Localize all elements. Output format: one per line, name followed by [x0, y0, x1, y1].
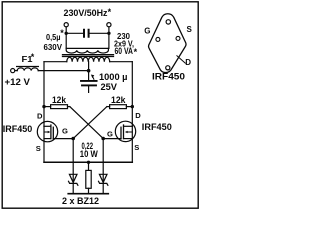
- svg-text:*: *: [60, 28, 64, 38]
- wire gate Q1 down to zener: [72, 139, 74, 184]
- wire cross coupling R2 to gate Q1: [73, 107, 107, 139]
- svg-text:*: *: [108, 7, 112, 17]
- label 230 2x9V 60VA: [114, 31, 138, 57]
- svg-text:+12 V: +12 V: [5, 77, 31, 88]
- transformer T1 secondary scallops: [66, 48, 108, 53]
- label F1: [22, 52, 35, 64]
- svg-text:*: *: [134, 47, 138, 57]
- IC package TO-3 outline: [149, 14, 186, 73]
- label 12k R1: [52, 95, 66, 105]
- label G Q1: [62, 127, 68, 136]
- svg-text:D: D: [37, 111, 43, 120]
- wire source Q2 down to rail: [131, 126, 133, 162]
- terminal +12V: [11, 69, 15, 73]
- svg-text:IRF450: IRF450: [3, 124, 33, 134]
- wire D1 cathode to bottom rail: [72, 183, 74, 193]
- svg-text:IRF450: IRF450: [152, 71, 185, 81]
- resistor R1 12k left: [51, 105, 68, 109]
- wire primary left end to drain Q1: [44, 61, 67, 63]
- wire center tap down: [88, 62, 90, 71]
- node dot center tap junction: [87, 69, 91, 73]
- label D TO-3: [185, 58, 191, 67]
- terminal left 230V: [64, 23, 68, 27]
- wire D2 cathode to bottom rail: [102, 183, 104, 193]
- label 0,22 10W: [80, 141, 98, 159]
- transformer T1 secondary line: [66, 47, 108, 49]
- transformer core lines: [63, 55, 114, 57]
- capacitor C1 0.5u 630V leads: [66, 32, 109, 34]
- wire gate Q1 lead: [53, 138, 73, 140]
- svg-text:*: *: [31, 52, 35, 62]
- node dot gate Q1: [71, 137, 75, 141]
- node dot gate Q2: [101, 137, 105, 141]
- transistor Q1 IRF450 left: [37, 121, 57, 141]
- svg-text:G: G: [62, 127, 68, 136]
- svg-text:S: S: [134, 143, 139, 152]
- label S TO-3: [187, 25, 193, 34]
- svg-text:10 W: 10 W: [80, 148, 98, 159]
- svg-text:S: S: [36, 144, 41, 153]
- svg-text:60 VA: 60 VA: [115, 46, 134, 56]
- node dot source rail center: [87, 161, 90, 164]
- svg-text:0,5µ: 0,5µ: [46, 33, 61, 42]
- transistor Q2 IRF450 right: [115, 121, 135, 141]
- node dot right cap junction: [107, 32, 110, 35]
- polarity arrow C2: [93, 77, 94, 79]
- wire source Q1 down to rail: [43, 126, 45, 162]
- wire drain Q1 vertical: [43, 62, 45, 127]
- label S Q1: [36, 144, 41, 153]
- label G Q2: [107, 129, 113, 138]
- svg-text:12k: 12k: [52, 95, 66, 105]
- node dot left cap junction: [65, 32, 68, 35]
- label IRF450 Q1: [3, 124, 33, 134]
- svg-text:25V: 25V: [101, 81, 118, 92]
- svg-text:IRF450: IRF450: [142, 122, 172, 132]
- label 0,5u 630V: [44, 28, 65, 52]
- node dot drain Q1 / R1 junction: [42, 105, 45, 108]
- TO-3 pin S: [176, 36, 180, 40]
- diode D2 zener BZ12 right: [99, 174, 107, 182]
- svg-text:G: G: [144, 26, 150, 35]
- label IRF450 TO-3: [152, 71, 185, 81]
- svg-text:230V/50Hz: 230V/50Hz: [64, 7, 108, 18]
- resistor R3 0.22 10W: [86, 170, 91, 188]
- label S Q2: [134, 143, 139, 152]
- wire R3 top lead: [88, 162, 90, 170]
- svg-text:D: D: [185, 58, 191, 67]
- svg-text:D: D: [135, 111, 141, 120]
- label IRF450 Q2: [142, 122, 172, 132]
- TO-3 pin G: [156, 37, 160, 41]
- svg-text:G: G: [107, 129, 113, 138]
- transformer T1 primary winding arcs: [67, 57, 110, 61]
- TO-3 top hole: [166, 20, 170, 24]
- wire right terminal to secondary: [108, 27, 110, 49]
- label G TO-3: [144, 26, 150, 35]
- wire R1 left lead: [44, 106, 51, 108]
- wire left terminal to secondary: [65, 27, 67, 49]
- wire drain Q2 vertical: [131, 62, 133, 127]
- label D Q2: [135, 111, 141, 120]
- label D Q1: [37, 111, 43, 120]
- label 1000u 25V: [99, 71, 128, 92]
- wire cross coupling R1 to gate Q2: [70, 107, 103, 139]
- wire R1 right lead: [68, 106, 70, 108]
- capacitor C1 plates: [84, 30, 89, 37]
- wire R3 bottom lead: [88, 188, 90, 193]
- capacitor C2 1000u 25V: [88, 71, 90, 80]
- svg-text:2 x BZ12: 2 x BZ12: [62, 195, 99, 206]
- terminal right 230V: [107, 23, 111, 27]
- node dot drain Q2 / R2 junction: [131, 105, 134, 108]
- wire source rail: [44, 161, 132, 163]
- label 230V/50Hz: [64, 7, 112, 18]
- label 12k R2: [111, 95, 126, 105]
- svg-text:630V: 630V: [44, 42, 63, 52]
- svg-text:S: S: [187, 25, 193, 34]
- border frame: [2, 2, 198, 208]
- diode D1 zener BZ12 left: [69, 174, 77, 182]
- label +12V: [5, 77, 31, 88]
- wire R2 right lead: [126, 106, 132, 108]
- wire bottom rail: [68, 193, 108, 195]
- TO-3 bottom hole: [166, 66, 170, 70]
- TO-3 D pointer: [177, 56, 185, 64]
- wire R2 left lead: [107, 106, 110, 108]
- svg-text:12k: 12k: [111, 95, 126, 105]
- wire gate Q2 down to zener: [102, 139, 104, 184]
- wire fuse to center junction: [38, 70, 88, 72]
- wire gate Q2 lead: [103, 138, 121, 140]
- fuse F1: [15, 70, 17, 72]
- resistor R2 12k right: [110, 105, 127, 109]
- label 2 x BZ12: [62, 195, 99, 206]
- wire primary right end to drain Q2: [110, 61, 133, 63]
